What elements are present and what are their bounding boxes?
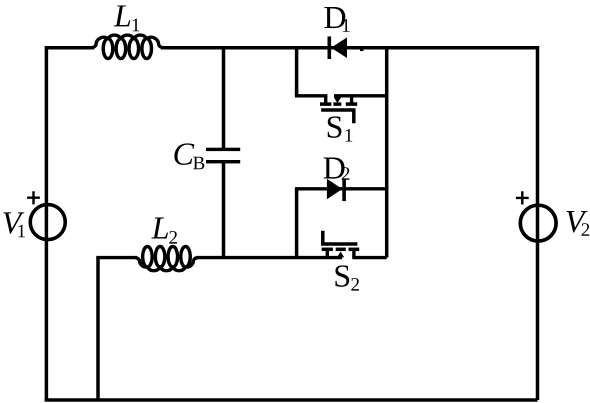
wire: S1 source wire to right branch — [334, 94, 387, 97]
diode D1 — [328, 36, 348, 59]
wire: S1 drain wire — [295, 94, 328, 97]
capacitor CB — [206, 148, 240, 164]
V1 plus sign — [27, 191, 40, 204]
label V1 — [3, 212, 24, 233]
label D1 — [324, 7, 345, 28]
transistor S1 (MOSFET) — [320, 96, 357, 123]
inductor L2 — [135, 247, 198, 271]
source V2 — [520, 205, 556, 241]
wire: D2 left branch — [295, 189, 299, 258]
label L1 — [114, 5, 131, 26]
label V2 subscript — [582, 223, 590, 236]
label S2 — [335, 265, 349, 287]
wire: L2 left wire — [96, 256, 137, 259]
wire: right vertical rail (V2 branch) — [536, 46, 540, 400]
label V2 — [567, 211, 588, 232]
label S2 subscript — [351, 278, 359, 291]
label L1 subscript — [133, 19, 140, 32]
wire: right inner branch (D1/S1 to D2/S2) — [385, 46, 389, 258]
wire: top bus from L1 to top-right corner — [161, 46, 538, 50]
wire: bottom bus — [45, 398, 538, 402]
label S1 — [328, 116, 342, 138]
label CB — [174, 143, 194, 164]
inductor L1 — [92, 35, 164, 58]
source V1 — [30, 205, 65, 240]
wire: D2 horizontal wire — [295, 187, 387, 190]
label CB subscript — [193, 157, 204, 169]
wire: left vertical rail (V1 branch) — [45, 46, 49, 400]
label D2 — [324, 158, 345, 179]
wire: L2 to S2 drain — [196, 256, 342, 259]
label S1 subscript — [346, 129, 353, 142]
V2 plus sign — [516, 191, 529, 204]
wire: CB top lead from top bus — [222, 46, 226, 149]
wire: S2 source wire — [352, 256, 386, 259]
label V1 subscript — [18, 225, 25, 238]
S2 body arrow — [337, 252, 344, 258]
label D2 subscript — [342, 167, 350, 180]
wire: L2 step vertical — [96, 258, 100, 401]
wire: top bus from V1 corner to L1 — [46, 46, 94, 50]
label L2 subscript — [169, 231, 177, 244]
transistor S2 (MOSFET) — [322, 231, 360, 258]
S1 body arrow — [334, 97, 341, 103]
node nub on top bus — [360, 48, 363, 52]
wire: S1 left branch from top bus — [295, 46, 299, 96]
diode D2 — [327, 179, 346, 202]
label D1 subscript — [343, 19, 350, 32]
label L2 — [151, 218, 168, 239]
wire: CB bottom lead to L2 wire — [222, 162, 226, 258]
